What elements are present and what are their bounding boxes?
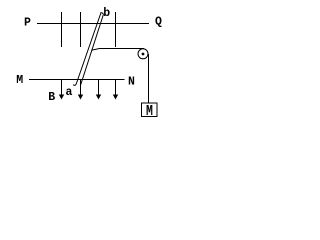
B field arrow 4 — [113, 80, 118, 100]
rod ab (sliding rod, double line) — [73, 13, 103, 86]
svg-text:B: B — [48, 91, 55, 104]
rail MN (bottom horizontal rail) — [29, 79, 125, 81]
svg-text:M: M — [16, 74, 23, 87]
B field arrow 1 — [59, 80, 64, 100]
B field arrow 3 — [96, 80, 101, 100]
field line 1 upper segment — [61, 12, 63, 47]
mass block — [142, 103, 158, 117]
rope from pulley to mass — [148, 54, 150, 104]
svg-text:Q: Q — [155, 15, 162, 28]
pulley axle dot — [142, 53, 145, 56]
pulley wheel — [138, 49, 148, 59]
svg-text:M: M — [146, 104, 153, 121]
B field arrow 2 — [78, 80, 83, 100]
svg-text:a: a — [66, 86, 73, 99]
svg-text:b: b — [103, 7, 110, 20]
rail PQ (top horizontal rail) — [37, 23, 149, 25]
string from rod to pulley — [91, 49, 144, 51]
svg-text:N: N — [128, 75, 135, 88]
field line 3 upper segment — [115, 12, 117, 47]
svg-text:P: P — [24, 16, 31, 29]
field line 2 upper segment — [80, 12, 82, 47]
